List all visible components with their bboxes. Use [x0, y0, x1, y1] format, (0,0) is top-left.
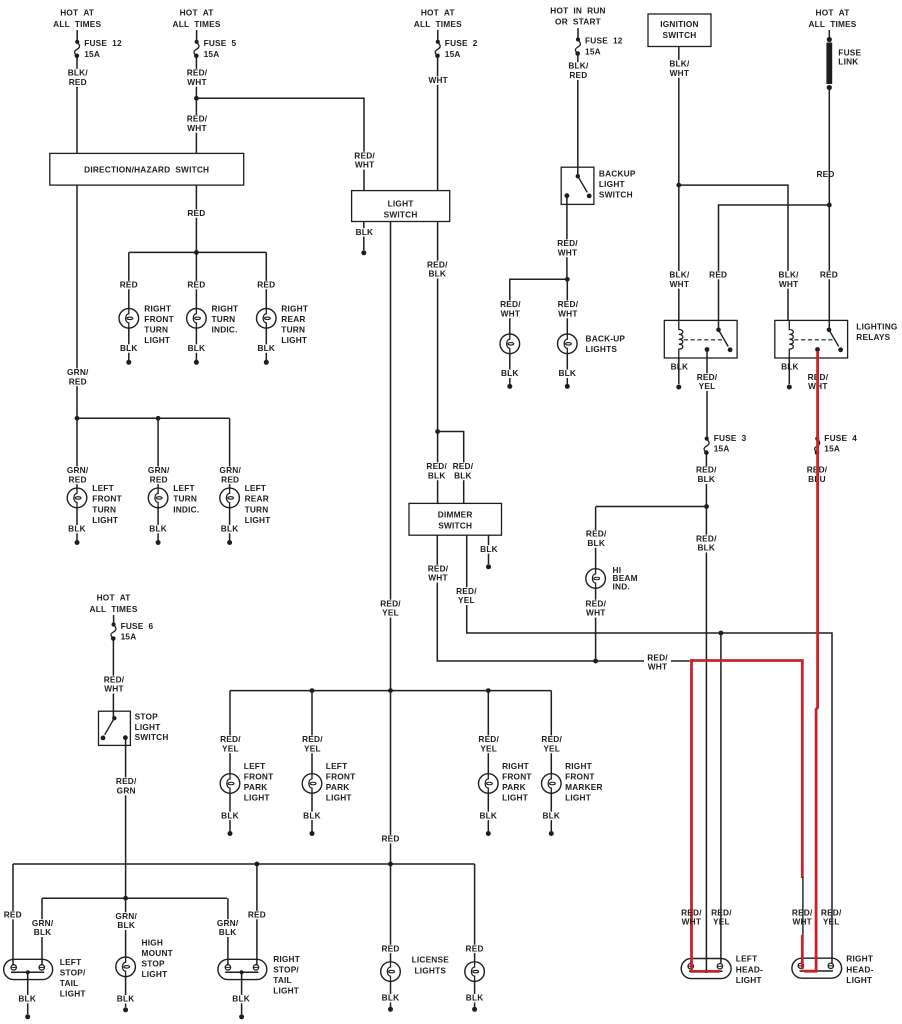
label FUSE 3 15A [714, 433, 747, 454]
svg-text:LIGHT: LIGHT [565, 792, 591, 802]
svg-text:BLK: BLK [303, 810, 321, 820]
relay 1 (lighting relay left) dashed link [684, 339, 723, 341]
svg-text:RED: RED [820, 270, 838, 280]
relay 1 (lighting relay left) switch contact [705, 328, 733, 353]
svg-text:TURN: TURN [173, 494, 197, 504]
wire RED fuse link down [828, 88, 830, 330]
wire BLK/RED to backup light switch [577, 54, 579, 177]
wire fuse 12 feed [76, 30, 78, 40]
svg-text:WHT: WHT [682, 917, 702, 927]
stop light switch [99, 711, 131, 745]
wire right backup light [566, 279, 568, 334]
svg-text:ALL TIMES: ALL TIMES [90, 604, 138, 614]
wire park light bus [230, 690, 551, 692]
label RED/BLK (dimmer in right) [452, 461, 475, 480]
wire RED/WHT traced run to right headlight [690, 661, 802, 879]
svg-text:RIGHT: RIGHT [281, 303, 308, 313]
label RED/WHT (dimmer out) [427, 563, 450, 582]
wire branch to left backup light [510, 279, 568, 334]
lighting relay 2 (lighting relay right) [775, 320, 848, 358]
terminal left stop/tail B [39, 965, 44, 970]
svg-text:REAR: REAR [245, 494, 269, 504]
svg-text:WHT: WHT [779, 279, 799, 289]
ground license 1 [388, 1007, 393, 1012]
terminal right headlight A [798, 963, 803, 968]
svg-text:LIGHT: LIGHT [599, 179, 625, 189]
lamp LEFT FRONT PARK LIGHT [302, 773, 322, 794]
relay 2 (lighting relay right) dashed link [794, 339, 833, 341]
svg-text:IGNITION: IGNITION [660, 19, 698, 29]
svg-text:LIGHT: LIGHT [326, 792, 352, 802]
svg-text:GRN: GRN [117, 785, 136, 795]
label RED/WHT (headlight run) [647, 652, 668, 671]
lamp license light right [465, 961, 485, 982]
label RED (right rear turn) [256, 280, 276, 290]
wire BLK lead LEFT REAR TURN LIGHT [229, 508, 231, 540]
label BLK (dimmer) [479, 544, 499, 554]
wire RED/BLK hi-beam ind feed [596, 506, 707, 508]
lamp LEFT TURN INDIC. [148, 488, 168, 509]
label BLK (light switch) [355, 227, 375, 237]
svg-text:15A: 15A [204, 49, 220, 59]
svg-text:WHT: WHT [558, 247, 578, 257]
wire RED/WHT to stop light switch [112, 639, 114, 719]
terminal left stop/tail A [11, 965, 16, 970]
svg-text:FUSE 12: FUSE 12 [585, 36, 623, 46]
svg-text:INDIC.: INDIC. [212, 325, 238, 335]
junction ignition coil split [676, 183, 681, 188]
svg-text:RED: RED [150, 474, 168, 484]
svg-text:SWITCH: SWITCH [135, 732, 169, 742]
svg-text:BLK: BLK [68, 524, 86, 534]
svg-text:FUSE 5: FUSE 5 [204, 38, 237, 48]
wire fuse 12 (backup) feed [577, 28, 579, 38]
svg-text:BLK: BLK [149, 524, 167, 534]
svg-text:RED: RED [466, 943, 484, 953]
label BLK (relay 1 (lighting relay left)) [671, 362, 689, 372]
svg-text:FRONT: FRONT [92, 494, 122, 504]
lamp RIGHT FRONT TURN LIGHT [119, 308, 139, 329]
label RED/YEL (right headlight) [821, 907, 842, 926]
svg-text:TURN: TURN [92, 504, 116, 514]
svg-text:RED: RED [69, 474, 87, 484]
svg-text:FRONT: FRONT [244, 771, 274, 781]
label WHT [428, 75, 450, 85]
svg-text:RED: RED [381, 943, 399, 953]
wire fuse 6 feed [113, 615, 115, 623]
label LEFT STOP/TAIL LIGHT [60, 957, 86, 999]
junction fuse 5 / light switch tap [194, 96, 199, 101]
svg-text:FRONT: FRONT [144, 314, 174, 324]
node left stop/tail common [26, 970, 30, 974]
label RED (right tail) [247, 910, 267, 920]
svg-text:BLK: BLK [479, 810, 497, 820]
ground RIGHT FRONT PARK LIGHT [486, 831, 491, 836]
wire BLK lead left stop/tail [27, 972, 29, 1014]
label RED (right front turn) [119, 280, 139, 290]
wire BLK lead right backup [566, 354, 568, 384]
label LIGHTING RELAYS [856, 322, 897, 342]
wire BLK lead RIGHT FRONT PARK LIGHT [487, 793, 489, 831]
lamp RIGHT TURN INDIC. [187, 308, 207, 329]
svg-text:RED: RED [69, 77, 87, 87]
label RIGHT TURN INDIC. [212, 303, 239, 334]
wire drop left stop/tail RED [12, 864, 14, 965]
relay 2 (lighting relay right) coil [789, 320, 793, 358]
label RIGHT HEAD-LIGHT [846, 954, 873, 986]
junction stop bus feed [123, 896, 128, 901]
wire RED/YEL dimmer high-beam out [467, 535, 832, 963]
svg-text:WHT: WHT [792, 917, 812, 927]
svg-text:LEFT: LEFT [92, 483, 114, 493]
label RED/WHT (light switch input) [353, 150, 376, 169]
svg-text:RED: RED [569, 70, 587, 80]
svg-text:STOP: STOP [142, 959, 166, 969]
svg-text:BLK: BLK [697, 474, 715, 484]
fuse F2 15A [435, 40, 440, 58]
svg-text:STOP/: STOP/ [60, 968, 86, 978]
label RED (right turn indic) [186, 280, 206, 290]
wire left stop/tail inner bar [11, 971, 44, 973]
svg-text:LICENSE: LICENSE [412, 955, 450, 965]
label GRN/RED (left turn indic) [147, 465, 171, 484]
junction left turn indic tap [156, 416, 161, 421]
svg-text:BLK: BLK [542, 810, 560, 820]
svg-text:BLK: BLK [120, 343, 138, 353]
fuse F5 15A [194, 40, 199, 58]
svg-text:LIGHTS: LIGHTS [586, 344, 618, 354]
svg-text:RIGHT: RIGHT [502, 761, 529, 771]
label FUSE 4 15A [824, 433, 857, 454]
wire RED/BLK fuse 3 down [705, 453, 707, 972]
label BLK/WHT (relay 1 coil) [668, 270, 690, 289]
backup light switch contact [565, 174, 592, 198]
wire BLK lead LEFT FRONT PARK LIGHT [229, 793, 231, 831]
wire drop right rear turn [265, 252, 267, 308]
label RED/WHT (left backup) [499, 299, 522, 318]
label RED/WHT (below hi beam ind) [585, 598, 608, 617]
label BLK (RIGHT FRONT PARK LIGHT) [479, 810, 499, 820]
label HIGH MOUNT STOP LIGHT [142, 938, 173, 980]
relay 2 (lighting relay right) switch contact [815, 328, 843, 353]
svg-text:SWITCH: SWITCH [663, 30, 697, 40]
svg-text:WHT: WHT [670, 68, 690, 78]
svg-text:BLK: BLK [356, 227, 374, 237]
svg-text:WHT: WHT [355, 160, 375, 170]
relay 1 (lighting relay left) coil [679, 320, 683, 358]
svg-text:OR START: OR START [555, 17, 601, 27]
label RIGHT FRONT TURN LIGHT [144, 303, 174, 345]
svg-text:TURN: TURN [144, 325, 168, 335]
label STOP LIGHT SWITCH [135, 712, 169, 743]
ground relay 1 (lighting relay left) coil [676, 385, 681, 390]
lamp RIGHT FRONT MARKER LIGHT [542, 773, 562, 794]
wire BLK lead RIGHT REAR TURN LIGHT [265, 328, 267, 360]
svg-text:RED: RED [248, 910, 266, 920]
svg-text:LEFT: LEFT [244, 761, 266, 771]
label BLK/RED (backup) [567, 61, 589, 80]
svg-text:RIGHT: RIGHT [212, 303, 239, 313]
lamp high mount stop light [116, 957, 136, 978]
svg-text:RED: RED [4, 910, 22, 920]
label RED/BLK (below fuse 3) [695, 465, 718, 484]
fuse F12 (backup) 15A [575, 37, 580, 55]
svg-text:WHT: WHT [586, 608, 606, 618]
wire BLK lead LEFT TURN INDIC. [157, 508, 159, 540]
wire BLK lead license 2 [474, 981, 476, 1007]
label HOT AT ALL TIMES (fuse 6) [90, 593, 138, 614]
ground RIGHT FRONT TURN LIGHT [126, 360, 131, 365]
svg-text:DIMMER: DIMMER [438, 509, 473, 519]
wire RED/WHT headlight run (label gap) [671, 660, 690, 662]
wire drop right front turn [128, 252, 130, 308]
svg-text:TURN: TURN [281, 325, 305, 335]
relay 1 (lighting relay left) coil ground lead [678, 358, 680, 384]
wire RED/BLK branch to dimmer right input [438, 432, 464, 504]
svg-text:FUSE 3: FUSE 3 [714, 433, 747, 443]
svg-text:BLK: BLK [232, 994, 250, 1004]
ground light switch [361, 250, 366, 255]
svg-text:LEFT: LEFT [173, 483, 195, 493]
label RIGHT STOP/TAIL LIGHT [273, 954, 300, 996]
svg-text:BLK: BLK [428, 470, 446, 480]
svg-text:TAIL: TAIL [273, 975, 292, 985]
svg-text:BLK: BLK [697, 543, 715, 553]
svg-text:LEFT: LEFT [326, 761, 348, 771]
svg-text:RIGHT: RIGHT [273, 954, 300, 964]
label BLK (RIGHT TURN INDIC.) [187, 343, 207, 353]
label BLK (RIGHT FRONT MARKER LIGHT) [542, 810, 562, 820]
svg-text:YEL: YEL [699, 381, 716, 391]
label BLK/WHT (ignition out) [668, 59, 690, 78]
svg-text:LIGHT: LIGHT [281, 335, 307, 345]
svg-text:RELAYS: RELAYS [856, 332, 890, 342]
label FUSE 12 15A (backup) [585, 36, 623, 57]
label LEFT FRONT TURN LIGHT [92, 483, 122, 525]
svg-text:LIGHT: LIGHT [245, 515, 271, 525]
lamp left back-up light [500, 334, 520, 355]
ground LEFT FRONT TURN LIGHT [75, 540, 80, 545]
svg-text:HOT AT: HOT AT [60, 8, 94, 18]
svg-text:YEL: YEL [458, 595, 475, 605]
label RED/WHT (right headlight) [792, 907, 813, 926]
wire left headlight inner bar [689, 970, 723, 972]
label GRN/RED (left rear turn) [218, 465, 242, 484]
wire BLK lead LEFT FRONT TURN LIGHT [76, 508, 78, 540]
label RED/WHT (above junction) [186, 114, 209, 133]
terminal right headlight B [828, 963, 833, 968]
label HOT AT ALL TIMES (fuse 5) [173, 8, 221, 29]
svg-text:15A: 15A [585, 47, 601, 57]
label BLK (LEFT FRONT TURN LIGHT) [67, 524, 87, 534]
svg-text:BLK: BLK [34, 927, 52, 937]
wire drop left front park light B [311, 691, 313, 774]
terminal left headlight B [717, 964, 722, 969]
svg-text:RED: RED [381, 834, 399, 844]
label RED/YEL (park feed) [379, 598, 402, 617]
svg-text:BLK: BLK [558, 368, 576, 378]
label BLK (right backup) [558, 368, 578, 378]
wire RED/BLK down to hi beam ind [595, 507, 597, 569]
ground relay 2 (lighting relay right) coil [787, 385, 792, 390]
wire RED/YEL drop to left headlight [720, 633, 722, 963]
fuse F4 15A [815, 437, 820, 455]
label LIGHT SWITCH [384, 198, 418, 219]
wire right stop/tail inner bar [225, 971, 258, 973]
svg-text:HOT AT: HOT AT [816, 8, 850, 18]
ground RIGHT REAR TURN LIGHT [264, 360, 269, 365]
wire drop right front marker light [550, 691, 552, 774]
junction left turn bus [75, 416, 80, 421]
svg-text:SWITCH: SWITCH [384, 209, 418, 219]
ground left stop/tail [25, 1014, 30, 1019]
wire drop right turn indic [195, 252, 197, 308]
label BLK (left stop/tail) [17, 994, 37, 1004]
svg-text:RED: RED [221, 474, 239, 484]
junction right turn bus [194, 250, 199, 255]
wire drop left rear turn [229, 418, 231, 488]
wire drop left stop GRN/BLK [41, 898, 43, 965]
svg-text:BLK: BLK [587, 538, 605, 548]
label RED/BLK (light switch out) [426, 259, 449, 278]
wire RED/WHT fuse 5 to direction/hazard switch [195, 56, 197, 154]
label HOT AT ALL TIMES (fuse 2) [414, 8, 462, 29]
svg-text:SWITCH: SWITCH [438, 520, 472, 530]
svg-text:LIGHT: LIGHT [846, 975, 872, 985]
svg-text:15A: 15A [824, 444, 840, 454]
svg-text:BLK: BLK [18, 994, 36, 1004]
label GRN/RED (left feed) [66, 367, 90, 386]
label RED (relay 2 contact) [819, 270, 839, 280]
terminal left headlight A [688, 964, 693, 969]
svg-text:BLK: BLK [219, 927, 237, 937]
wire BLK lead RIGHT TURN INDIC. [195, 328, 197, 360]
label GRN/RED (left front turn) [66, 465, 90, 484]
label RED/BLK (low beam run) [695, 533, 718, 552]
wire right turn bus [129, 251, 266, 253]
label RED (fuse link) [816, 169, 834, 179]
junction hi beam ind / low-beam run [593, 659, 598, 664]
backup light switch [561, 167, 594, 204]
fuse F12 15A [75, 40, 80, 58]
svg-text:TAIL: TAIL [60, 978, 79, 988]
svg-text:WHT: WHT [648, 662, 668, 672]
wire BLK light switch ground stub [363, 222, 365, 251]
lighting relay 1 (lighting relay left) [664, 320, 737, 358]
lamp right back-up light [558, 334, 578, 355]
wire RED/BLK light switch to dimmer junction [437, 222, 439, 432]
lamp RIGHT REAR TURN LIGHT [257, 308, 277, 329]
label LEFT TURN INDIC. [173, 483, 199, 514]
svg-text:INDIC.: INDIC. [173, 504, 199, 514]
wire RED park bus to tail bus [390, 691, 392, 864]
svg-text:SWITCH: SWITCH [599, 190, 633, 200]
relay 2 (lighting relay right) coil ground lead [788, 358, 790, 384]
junction park bus feed [388, 688, 393, 693]
label GRN/BLK (high mount) [114, 911, 138, 930]
label RED/BLK (hi beam ind) [585, 529, 608, 548]
svg-text:BACKUP: BACKUP [599, 169, 636, 179]
svg-text:15A: 15A [121, 632, 137, 642]
label RIGHT FRONT PARK LIGHT [502, 761, 532, 803]
svg-text:RED: RED [816, 169, 834, 179]
label RIGHT REAR TURN LIGHT [281, 303, 308, 345]
svg-text:YEL: YEL [480, 743, 497, 753]
wire drop right front park light [487, 691, 489, 774]
svg-text:RED: RED [709, 270, 727, 280]
wire fuse link feed [828, 30, 830, 40]
wire drop right stop/tail RED [256, 864, 258, 965]
lamp LEFT FRONT TURN LIGHT [67, 488, 87, 509]
wire RED/WHT dimmer low-beam out [437, 535, 644, 661]
svg-text:LIGHTS: LIGHTS [414, 966, 446, 976]
svg-text:FRONT: FRONT [326, 771, 356, 781]
svg-text:BLK: BLK [781, 362, 799, 372]
wire high mount stop feed [125, 898, 127, 957]
svg-text:RED: RED [257, 280, 275, 290]
svg-text:WHT: WHT [187, 77, 207, 87]
svg-text:WHT: WHT [670, 279, 690, 289]
wire BLK/WHT branch to lighting relay 2 coil [679, 185, 788, 320]
svg-text:RED: RED [187, 208, 205, 218]
wire BLK lead left backup [509, 354, 511, 384]
lamp RIGHT FRONT PARK LIGHT [479, 773, 499, 794]
svg-text:FRONT: FRONT [502, 771, 532, 781]
svg-text:HEAD-: HEAD- [846, 964, 873, 974]
svg-text:HIGH: HIGH [142, 938, 164, 948]
junction hi-beam-ind tap [704, 504, 709, 509]
label RED (tail feed) [380, 834, 400, 844]
svg-text:MOUNT: MOUNT [142, 948, 173, 958]
ground LEFT REAR TURN LIGHT [227, 540, 232, 545]
svg-text:BLK: BLK [428, 269, 446, 279]
label BLK (relay 2 (lighting relay right)) [781, 362, 799, 372]
junction high-beam left headlight tap [719, 631, 724, 636]
svg-text:YEL: YEL [823, 917, 840, 927]
node right stop/tail common [240, 970, 244, 974]
svg-text:RIGHT: RIGHT [565, 761, 592, 771]
svg-text:RIGHT: RIGHT [144, 303, 171, 313]
wire RED/WHT traced left headlight [692, 659, 720, 971]
label FUSE LINK [838, 48, 861, 67]
label IGNITION SWITCH [660, 19, 698, 40]
label BLK (RIGHT REAR TURN LIGHT) [257, 343, 277, 353]
label FUSE 6 15A [121, 621, 154, 642]
label BLK (right stop/tail) [231, 994, 251, 1004]
svg-text:YEL: YEL [382, 608, 399, 618]
ground right backup light [565, 384, 570, 389]
label BLK (LEFT FRONT PARK LIGHT) [220, 810, 240, 820]
svg-text:LEFT: LEFT [60, 957, 82, 967]
svg-text:PARK: PARK [326, 782, 350, 792]
label RED/YEL (LEFT FRONT PARK LIGHT) [301, 734, 324, 753]
svg-text:BACK-UP: BACK-UP [586, 334, 626, 344]
wire BLK lead license 1 [390, 981, 392, 1007]
svg-text:RED: RED [120, 280, 138, 290]
label RED/WHT (relay 2 out) [807, 372, 830, 391]
label RED/WHT (right backup) [557, 299, 580, 318]
svg-text:FUSE 6: FUSE 6 [121, 621, 154, 631]
svg-text:RIGHT: RIGHT [846, 954, 873, 964]
wire fuse 5 feed [196, 30, 198, 40]
wire RED/BLK into dimmer left input [437, 432, 439, 504]
right headlight housing [792, 958, 842, 978]
label LEFT FRONT PARK LIGHT [244, 761, 274, 803]
svg-text:LIGHT: LIGHT [60, 989, 86, 999]
terminal right stop/tail B [253, 965, 258, 970]
svg-text:LIGHT: LIGHT [92, 515, 118, 525]
svg-text:LIGHT: LIGHT [736, 975, 762, 985]
